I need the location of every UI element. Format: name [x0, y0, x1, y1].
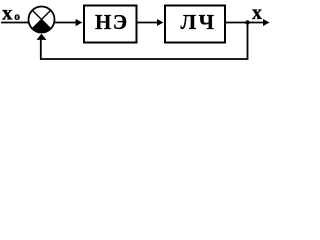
- wire NE to LCh box: [137, 22, 159, 24]
- svg-text:НЭ: НЭ: [95, 10, 129, 34]
- svg-text:x: x: [252, 2, 262, 24]
- arrowhead into NE box: [76, 19, 83, 26]
- feedback wire: down from junction: [247, 23, 249, 60]
- svg-text:x: x: [2, 1, 13, 25]
- junction dot on output wire: [245, 20, 249, 24]
- feedback arrowhead into summer bottom: [37, 34, 47, 40]
- svg-text:o: o: [14, 11, 20, 23]
- output arrowhead: [263, 19, 270, 26]
- feedback wire: up into summer: [40, 38, 42, 60]
- wire summer to NE box: [55, 22, 78, 24]
- wire input x0 to summer: [1, 22, 29, 24]
- feedback wire: bottom run: [40, 58, 248, 60]
- svg-text:ЛЧ: ЛЧ: [181, 10, 217, 34]
- arrowhead into LCh box: [157, 19, 164, 26]
- block LCh (linear part): [165, 6, 225, 43]
- block NE (nonlinear element): [84, 6, 137, 43]
- summing junction (comparator) circle with X, bottom sector filled: [29, 7, 55, 33]
- wire LCh to output: [226, 22, 264, 24]
- node x0 input label: [2, 1, 20, 25]
